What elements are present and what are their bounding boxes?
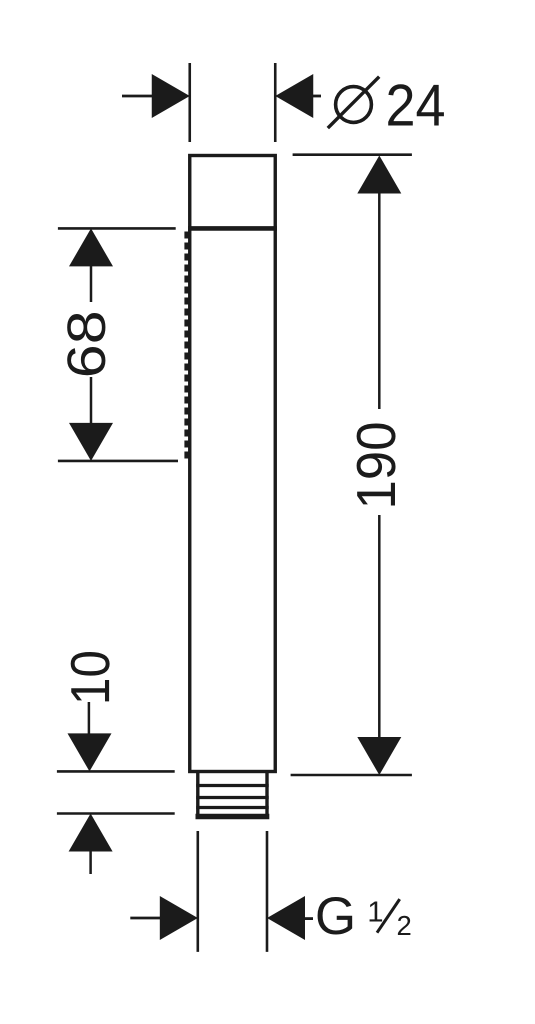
dim68 top extension line <box>58 227 176 230</box>
dia24 left tail <box>122 95 153 98</box>
thread connector left edge <box>196 772 199 817</box>
dim68 lower line <box>90 377 93 424</box>
dim190 lower line <box>378 515 381 738</box>
dia24 left arrow <box>152 74 190 118</box>
dia symbol circle <box>336 87 372 123</box>
dia24 right arrow <box>275 74 313 118</box>
shower handle body outline <box>190 156 276 772</box>
label half fraction slash <box>377 899 400 933</box>
dim10 lower tail <box>89 850 92 874</box>
dim10 top extension line <box>57 770 175 773</box>
dim68 bottom extension line <box>58 460 178 463</box>
label G <box>318 897 353 935</box>
cap separation thick line <box>188 226 277 231</box>
dim190 upper line <box>378 192 381 409</box>
thread connector right edge <box>265 772 268 817</box>
dim190 top extension line <box>293 153 412 156</box>
dim190 top arrow <box>357 156 401 194</box>
dia24 right tail <box>313 95 322 98</box>
dim68 upper line <box>90 265 93 302</box>
dimG12 right arrow <box>267 896 305 940</box>
thread line 3 <box>196 806 269 809</box>
thread bottom thick line <box>196 814 270 820</box>
label 190 <box>357 424 396 506</box>
dim190 bottom arrow <box>357 737 401 775</box>
dim10 leader line <box>88 702 91 734</box>
dia24 right extension line <box>274 63 277 142</box>
dim10 bottom extension line <box>57 812 175 815</box>
label 68 <box>67 313 105 375</box>
label half fraction denominator 2 <box>398 916 411 935</box>
thread line 2 <box>196 796 269 799</box>
dimG12 left extension line <box>197 831 200 952</box>
label 24 <box>388 84 444 125</box>
dia symbol slash <box>328 77 379 128</box>
spray face serration (dashed strip) <box>184 232 188 463</box>
dia24 left extension line <box>188 63 191 142</box>
label 10 <box>71 652 110 701</box>
dim68 top arrow <box>69 228 113 266</box>
dimG12 left tail <box>130 917 161 920</box>
dim68 bottom arrow <box>69 423 113 461</box>
label half fraction numerator 1 <box>370 902 383 922</box>
dimG12 right extension line <box>266 831 269 952</box>
dimG12 right tail <box>304 917 313 920</box>
thread line 1 <box>196 784 269 787</box>
dim190 bottom extension line <box>291 774 412 777</box>
dim10 up arrow <box>69 814 113 852</box>
dim10 down arrow <box>68 733 112 771</box>
dimG12 left arrow <box>160 896 198 940</box>
